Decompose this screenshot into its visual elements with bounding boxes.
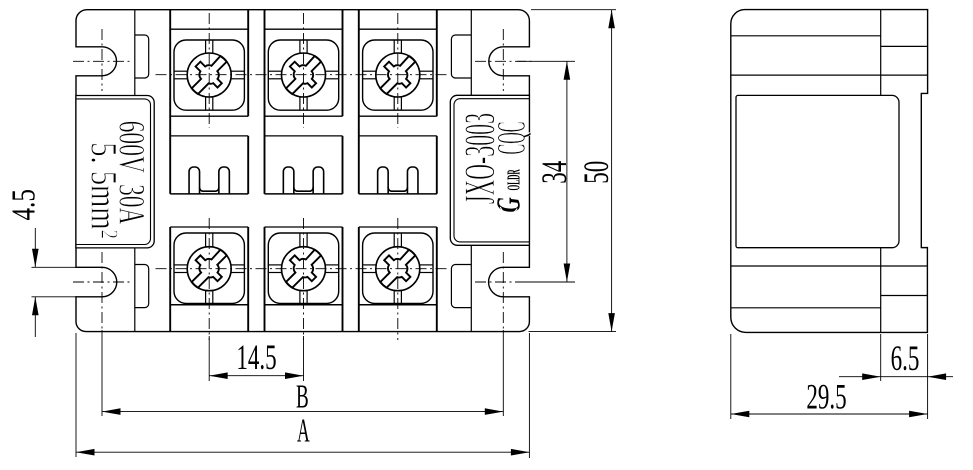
screw terminal 2 top [282, 53, 326, 97]
pole 3 middle cell (wire clamp) [359, 135, 437, 137]
pole 1 centre line vertical [208, 13, 210, 128]
svg-text:50: 50 [576, 161, 616, 184]
dimension 14.5 [209, 375, 303, 377]
dimension B extension lines [101, 330, 103, 416]
pole 1 middle cell (wire clamp) [170, 135, 248, 137]
right label plate [450, 95, 529, 245]
svg-text:CQC: CQC [489, 122, 534, 155]
dimension B [102, 411, 503, 413]
pole 2 top cell [265, 28, 343, 30]
dimension 34 extension lines [517, 60, 575, 62]
pole 2 bottom screw tick marks [299, 233, 301, 247]
dimension 29.5 [731, 413, 928, 415]
side view base lines [731, 35, 881, 37]
screw terminal 2 bottom [282, 247, 326, 291]
pole 2 centre line vertical [303, 13, 305, 128]
svg-text:OLDR: OLDR [504, 169, 524, 190]
pole 1 bottom cell [170, 226, 248, 228]
svg-text:4.5: 4.5 [5, 189, 43, 220]
screw terminal 1 top [187, 53, 231, 97]
right groove line [470, 10, 472, 96]
pole 3 top screw tick marks [393, 40, 395, 54]
dimension 4.5 extension lines [32, 266, 77, 268]
dimension 4.5 [34, 228, 36, 267]
svg-text:B: B [296, 377, 309, 415]
svg-text:34: 34 [534, 161, 574, 184]
svg-text:G: G [491, 197, 528, 213]
dimension A [76, 451, 529, 453]
pole 1 bottom screw tick marks [205, 233, 207, 247]
screw terminal 1 bottom [187, 247, 231, 291]
screw terminal 3 bottom [376, 247, 420, 291]
pole 2 bottom cell [265, 226, 343, 228]
right groove recess top [451, 35, 471, 78]
svg-text:5. 5mm2: 5. 5mm2 [83, 142, 123, 239]
svg-text:A: A [297, 411, 310, 449]
dimension 29.5 extension lines [730, 334, 732, 419]
side view centre panel [736, 95, 899, 247]
right groove recess bottom [451, 265, 471, 308]
screw row centre line bottom [156, 268, 450, 270]
pole 3 cell walls [358, 10, 360, 194]
left label plate [76, 96, 154, 248]
pole 3 bottom screw tick marks [393, 233, 395, 247]
left groove line [134, 10, 136, 96]
dimension 6.5 [839, 376, 928, 378]
svg-text:29.5: 29.5 [806, 376, 846, 416]
mounting hole centre lines [101, 29, 103, 91]
svg-text:6.5: 6.5 [891, 338, 920, 378]
svg-text:14.5: 14.5 [236, 337, 276, 377]
pole 3 bottom cell [359, 226, 437, 228]
screw terminal 3 top [376, 53, 420, 97]
pole 1 top screw tick marks [205, 40, 207, 54]
GOLDR logo [491, 169, 528, 213]
pole 2 top screw tick marks [299, 40, 301, 54]
left groove recess bottom [135, 265, 149, 308]
pole 1 top cell [170, 28, 248, 30]
dimension 14.5 extension lines [208, 336, 210, 381]
pole 1 cell walls [169, 10, 171, 194]
dimension 50 extension lines [531, 9, 616, 11]
left groove recess top [135, 35, 149, 78]
pole 3 centre line vertical [397, 13, 399, 128]
side view outline [731, 10, 928, 333]
pole 2 middle cell (wire clamp) [265, 135, 343, 137]
terminal block body outline [76, 10, 529, 332]
dimension 34 [566, 61, 568, 282]
dimension 6.5 extension lines [880, 334, 882, 381]
pole 2 cell walls [264, 10, 266, 194]
dimension 50 [611, 10, 613, 332]
screw row centre line top [156, 74, 450, 76]
pole 3 top cell [359, 28, 437, 30]
dimension A extension lines [75, 333, 77, 457]
